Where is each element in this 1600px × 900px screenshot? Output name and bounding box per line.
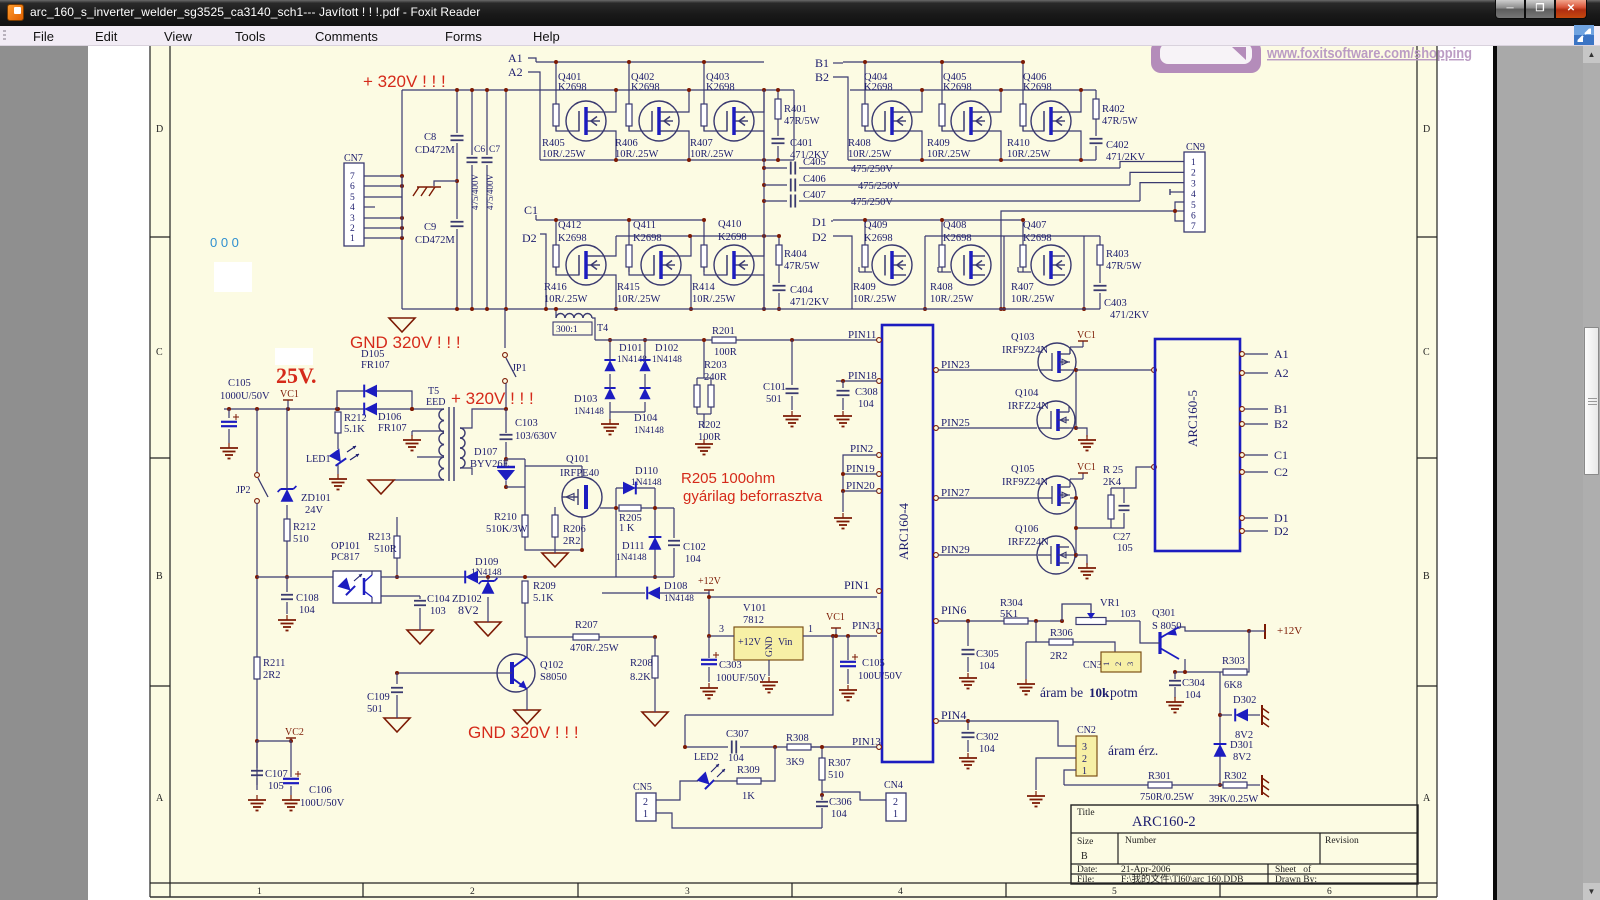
svg-text:+12V: +12V <box>738 637 762 648</box>
svg-text:8.2K: 8.2K <box>630 672 651 683</box>
svg-text:JP1: JP1 <box>512 363 526 374</box>
svg-text:B: B <box>1081 851 1088 862</box>
svg-text:104: 104 <box>858 399 875 410</box>
svg-text:10R/.25W: 10R/.25W <box>1007 149 1051 160</box>
svg-text:Q407: Q407 <box>1023 220 1046 231</box>
svg-text:3: 3 <box>719 624 724 635</box>
svg-text:D107: D107 <box>474 447 497 458</box>
svg-text:C1: C1 <box>524 203 538 217</box>
svg-text:510R: 510R <box>374 544 397 555</box>
svg-text:D: D <box>1423 124 1430 135</box>
svg-text:R209: R209 <box>533 581 556 592</box>
svg-text:C101: C101 <box>763 382 786 393</box>
svg-text:1N4148: 1N4148 <box>634 426 664 436</box>
svg-text:3: 3 <box>350 214 355 224</box>
svg-text:10R/.25W: 10R/.25W <box>848 149 892 160</box>
svg-text:C104: C104 <box>427 594 451 605</box>
svg-text:C7: C7 <box>489 145 500 155</box>
svg-text:R416: R416 <box>544 282 567 293</box>
svg-text:R211: R211 <box>263 658 285 669</box>
svg-text:475/250V: 475/250V <box>851 164 893 175</box>
svg-text:3: 3 <box>1082 742 1087 753</box>
svg-text:VC1: VC1 <box>1077 330 1096 341</box>
svg-text:R408: R408 <box>848 138 871 149</box>
svg-text:104: 104 <box>831 809 848 820</box>
svg-text:C307: C307 <box>726 729 749 740</box>
svg-text:475/250V: 475/250V <box>851 197 893 208</box>
svg-text:Q301: Q301 <box>1152 608 1175 619</box>
svg-text:2: 2 <box>470 887 475 897</box>
svg-text:4: 4 <box>350 203 355 213</box>
svg-text:C8: C8 <box>424 132 436 143</box>
svg-text:1: 1 <box>1101 662 1111 666</box>
svg-text:Q105: Q105 <box>1011 464 1034 475</box>
svg-text:2R2: 2R2 <box>563 536 581 547</box>
svg-text:FR107: FR107 <box>361 360 390 371</box>
svg-text:K2698: K2698 <box>633 233 662 244</box>
svg-text:LED2: LED2 <box>694 752 718 763</box>
svg-text:PIN6: PIN6 <box>941 603 966 617</box>
svg-text:OP101: OP101 <box>331 541 360 552</box>
svg-text:A2: A2 <box>1274 366 1289 380</box>
svg-text:R207: R207 <box>575 620 598 631</box>
svg-text:K2698: K2698 <box>864 82 893 93</box>
svg-text:7812: 7812 <box>743 615 764 626</box>
svg-text:C402: C402 <box>1106 140 1129 151</box>
svg-text:K2698: K2698 <box>1023 82 1052 93</box>
svg-text:CD472M: CD472M <box>415 145 455 156</box>
svg-text:2: 2 <box>1082 754 1087 765</box>
svg-text:2: 2 <box>643 797 648 808</box>
svg-text:ZD101: ZD101 <box>301 493 331 504</box>
svg-text:+12V: +12V <box>1277 625 1302 637</box>
svg-text:R303: R303 <box>1222 656 1245 667</box>
svg-text:1N4148: 1N4148 <box>652 355 682 365</box>
svg-text:1: 1 <box>257 887 262 897</box>
svg-text:D109: D109 <box>475 557 498 568</box>
svg-text:K2698: K2698 <box>1023 233 1052 244</box>
svg-text:475/400V: 475/400V <box>485 173 495 210</box>
svg-text:R301: R301 <box>1148 771 1171 782</box>
svg-text:D103: D103 <box>574 394 597 405</box>
svg-text:8V2: 8V2 <box>458 603 479 617</box>
svg-text:2R2: 2R2 <box>1050 651 1068 662</box>
svg-text:R409: R409 <box>853 282 876 293</box>
svg-text:1: 1 <box>893 809 898 820</box>
svg-text:Q101: Q101 <box>566 454 589 465</box>
svg-text:25V.: 25V. <box>276 363 317 388</box>
svg-text:+ 320V ! ! !: + 320V ! ! ! <box>451 389 534 408</box>
svg-text:PIN4: PIN4 <box>941 708 966 722</box>
svg-text:K2698: K2698 <box>558 82 587 93</box>
svg-text:3: 3 <box>1191 179 1196 189</box>
svg-text:471/2KV: 471/2KV <box>790 297 830 308</box>
svg-text:R309: R309 <box>737 765 760 776</box>
svg-text:LED1: LED1 <box>306 454 330 465</box>
svg-text:7: 7 <box>1191 222 1196 232</box>
svg-text:1N4148: 1N4148 <box>574 407 604 417</box>
svg-text:PIN2: PIN2 <box>850 443 873 455</box>
svg-text:PC817: PC817 <box>331 552 360 563</box>
svg-text:10R/.25W: 10R/.25W <box>690 149 734 160</box>
svg-text:4: 4 <box>1191 190 1196 200</box>
svg-text:47R/5W: 47R/5W <box>1102 116 1138 127</box>
svg-text:CN5: CN5 <box>633 782 652 793</box>
svg-text:47R/5W: 47R/5W <box>784 261 820 272</box>
svg-text:R308: R308 <box>786 733 809 744</box>
svg-text:475/250V: 475/250V <box>858 181 900 192</box>
svg-text:CN4: CN4 <box>884 780 903 791</box>
svg-text:K2698: K2698 <box>631 82 660 93</box>
svg-text:C2: C2 <box>1274 465 1288 479</box>
svg-text:Date:: Date: <box>1077 865 1098 875</box>
svg-text:C1: C1 <box>1274 448 1288 462</box>
svg-text:R304: R304 <box>1000 598 1024 609</box>
svg-text:103: 103 <box>430 606 446 617</box>
svg-text:CN7: CN7 <box>344 153 363 164</box>
svg-text:R410: R410 <box>1007 138 1030 149</box>
svg-text:C306: C306 <box>829 797 852 808</box>
svg-text:GND 320V ! ! !: GND 320V ! ! ! <box>468 723 579 742</box>
svg-text:300:1: 300:1 <box>556 325 578 335</box>
svg-text:IRF9Z24N: IRF9Z24N <box>1002 345 1049 356</box>
svg-text:8V2: 8V2 <box>1233 752 1251 763</box>
svg-text:D2: D2 <box>1274 524 1289 538</box>
svg-text:K2698: K2698 <box>864 233 893 244</box>
svg-text:T5: T5 <box>428 386 439 397</box>
svg-text:2R2: 2R2 <box>263 670 281 681</box>
svg-text:VR1: VR1 <box>1100 598 1120 609</box>
svg-text:R415: R415 <box>617 282 640 293</box>
svg-text:D302: D302 <box>1233 695 1256 706</box>
svg-text:1K: 1K <box>742 791 755 802</box>
svg-text:R201: R201 <box>712 326 735 337</box>
svg-text:K2698: K2698 <box>718 232 747 243</box>
svg-text:B: B <box>1423 571 1430 582</box>
svg-text:R408: R408 <box>930 282 953 293</box>
svg-text:5: 5 <box>1112 887 1117 897</box>
svg-text:2: 2 <box>1191 169 1196 179</box>
svg-text:3: 3 <box>1125 662 1135 666</box>
svg-text:10R/.25W: 10R/.25W <box>542 149 586 160</box>
svg-text:501: 501 <box>766 394 782 405</box>
svg-text:Q106: Q106 <box>1015 524 1038 535</box>
svg-text:47R/5W: 47R/5W <box>1106 261 1142 272</box>
svg-text:R407: R407 <box>1011 282 1034 293</box>
svg-text:10R/.25W: 10R/.25W <box>927 149 971 160</box>
svg-text:R210: R210 <box>494 512 517 523</box>
svg-text:C109: C109 <box>367 692 390 703</box>
svg-text:R402: R402 <box>1102 104 1125 115</box>
svg-text:104: 104 <box>979 744 996 755</box>
svg-text:7: 7 <box>350 172 355 182</box>
svg-text:R208: R208 <box>630 658 653 669</box>
svg-text:JP2: JP2 <box>236 485 250 496</box>
svg-text:PIN29: PIN29 <box>941 544 970 556</box>
svg-text:Q411: Q411 <box>633 220 656 231</box>
svg-text:K2698: K2698 <box>943 233 972 244</box>
svg-text:1: 1 <box>350 234 355 244</box>
svg-text:A: A <box>1423 793 1431 804</box>
svg-text:PIN31: PIN31 <box>852 620 881 632</box>
svg-text:39K/0.25W: 39K/0.25W <box>1209 794 1258 805</box>
svg-text:Number: Number <box>1125 836 1157 846</box>
svg-text:CD472M: CD472M <box>415 235 455 246</box>
svg-text:PIN23: PIN23 <box>941 359 970 371</box>
svg-text:C108: C108 <box>296 593 319 604</box>
svg-text:10k: 10k <box>1089 685 1110 700</box>
svg-text:PIN11: PIN11 <box>848 329 876 341</box>
svg-text:5: 5 <box>350 193 355 203</box>
svg-text:C6: C6 <box>474 145 485 155</box>
svg-text:áram be: áram be <box>1040 685 1083 700</box>
svg-text:10R/.25W: 10R/.25W <box>1011 294 1055 305</box>
svg-text:IRF9Z24N: IRF9Z24N <box>1002 477 1049 488</box>
svg-text:105: 105 <box>268 781 284 792</box>
svg-text:R205 100ohm: R205 100ohm <box>681 470 775 487</box>
svg-text:2: 2 <box>350 224 355 234</box>
svg-text:PIN1: PIN1 <box>844 578 869 592</box>
svg-text:C105: C105 <box>862 658 885 669</box>
svg-text:R302: R302 <box>1224 771 1247 782</box>
svg-text:10R/.25W: 10R/.25W <box>544 294 588 305</box>
svg-text:www.foxitsoftware.com/shopping: www.foxitsoftware.com/shopping <box>1266 46 1472 62</box>
svg-text:D1: D1 <box>1274 511 1289 525</box>
svg-text:A: A <box>156 793 164 804</box>
svg-text:10R/.25W: 10R/.25W <box>930 294 974 305</box>
svg-text:A2: A2 <box>508 65 523 79</box>
svg-text:750R/0.25W: 750R/0.25W <box>1140 792 1194 803</box>
svg-text:B2: B2 <box>815 70 829 84</box>
svg-text:S8050: S8050 <box>540 672 567 683</box>
svg-text:105: 105 <box>1117 543 1133 554</box>
svg-text:3K9: 3K9 <box>786 757 804 768</box>
svg-text:V101: V101 <box>743 603 766 614</box>
svg-text:CN3: CN3 <box>1083 660 1102 671</box>
svg-text:D102: D102 <box>655 343 678 354</box>
svg-text:5.1K: 5.1K <box>533 593 554 604</box>
svg-text:C102: C102 <box>683 542 706 553</box>
svg-text:C: C <box>1423 347 1430 358</box>
svg-text:100R: 100R <box>698 432 721 443</box>
svg-text:100U/50V: 100U/50V <box>300 798 345 809</box>
svg-text:6: 6 <box>1191 212 1196 222</box>
svg-text:A1: A1 <box>508 51 523 65</box>
svg-text:24V: 24V <box>305 505 324 516</box>
svg-text:PIN13: PIN13 <box>852 736 881 748</box>
svg-text:103/630V: 103/630V <box>515 431 557 442</box>
svg-text:áram érz.: áram érz. <box>1108 743 1158 758</box>
svg-text:B1: B1 <box>1274 402 1288 416</box>
svg-text:Revision: Revision <box>1325 836 1359 846</box>
svg-text:B1: B1 <box>815 56 829 70</box>
svg-text:4: 4 <box>898 887 903 897</box>
svg-text:Q102: Q102 <box>540 660 563 671</box>
svg-text:1: 1 <box>808 624 813 635</box>
svg-text:2K4: 2K4 <box>1103 477 1122 488</box>
svg-text:D105: D105 <box>361 349 384 360</box>
svg-text:C9: C9 <box>424 222 436 233</box>
svg-text:1 K: 1 K <box>619 523 635 534</box>
svg-text:501: 501 <box>367 704 383 715</box>
svg-text:Q409: Q409 <box>864 220 887 231</box>
svg-text:ARC160-2: ARC160-2 <box>1132 814 1196 830</box>
svg-text:CN9: CN9 <box>1186 142 1205 153</box>
svg-text:C404: C404 <box>790 285 814 296</box>
svg-text:C403: C403 <box>1104 298 1127 309</box>
svg-text:R404: R404 <box>784 249 808 260</box>
svg-text:R203: R203 <box>704 360 727 371</box>
svg-text:D108: D108 <box>664 581 687 592</box>
svg-text:D106: D106 <box>378 412 401 423</box>
svg-text:104: 104 <box>979 661 996 672</box>
svg-text:510K/3W: 510K/3W <box>486 524 528 535</box>
svg-text:VC2: VC2 <box>285 727 304 738</box>
svg-text:R212: R212 <box>293 522 316 533</box>
svg-text:BYV26E: BYV26E <box>470 459 509 470</box>
svg-text:A1: A1 <box>1274 347 1289 361</box>
svg-text:475/400V: 475/400V <box>470 173 480 210</box>
svg-text:Q412: Q412 <box>558 220 581 231</box>
svg-text:R202: R202 <box>698 420 721 431</box>
svg-text:104: 104 <box>728 753 745 764</box>
svg-text:510: 510 <box>828 770 844 781</box>
svg-text:Vin: Vin <box>778 637 792 648</box>
svg-text:B2: B2 <box>1274 417 1288 431</box>
svg-text:+12V: +12V <box>698 576 722 587</box>
svg-text:Size: Size <box>1077 837 1093 847</box>
svg-text:IRFPE40: IRFPE40 <box>560 468 599 479</box>
svg-text:0 0 0: 0 0 0 <box>210 235 239 250</box>
svg-text:2: 2 <box>893 797 898 808</box>
svg-text:104: 104 <box>299 605 316 616</box>
svg-text:6: 6 <box>1327 887 1332 897</box>
svg-text:10R/.25W: 10R/.25W <box>853 294 897 305</box>
svg-text:C105: C105 <box>228 378 251 389</box>
svg-text:Q104: Q104 <box>1015 388 1039 399</box>
svg-text:R405: R405 <box>542 138 565 149</box>
svg-text:B: B <box>156 571 163 582</box>
svg-text:ARC160-5: ARC160-5 <box>1185 390 1200 447</box>
svg-text:FR107: FR107 <box>378 423 407 434</box>
svg-text:2: 2 <box>1113 662 1123 666</box>
svg-text:C106: C106 <box>309 785 332 796</box>
svg-text:10R/.25W: 10R/.25W <box>617 294 661 305</box>
svg-text:R306: R306 <box>1050 628 1073 639</box>
svg-text:100UF/50V: 100UF/50V <box>716 673 767 684</box>
svg-text:K2698: K2698 <box>558 233 587 244</box>
svg-text:T4: T4 <box>597 323 608 334</box>
svg-text:1: 1 <box>1191 158 1196 168</box>
svg-text:VC1: VC1 <box>826 612 845 623</box>
svg-text:D110: D110 <box>635 466 658 477</box>
svg-text:D111: D111 <box>622 541 645 552</box>
svg-text:470R/.25W: 470R/.25W <box>570 643 619 654</box>
svg-text:C304: C304 <box>1182 678 1206 689</box>
svg-text:gyárilag beforrasztva: gyárilag beforrasztva <box>683 488 823 505</box>
svg-text:Sheet of: Sheet of <box>1275 864 1312 875</box>
svg-text:10R/.25W: 10R/.25W <box>692 294 736 305</box>
svg-text:R307: R307 <box>828 758 851 769</box>
svg-text:K2698: K2698 <box>706 82 735 93</box>
svg-text:VC1: VC1 <box>1077 462 1096 473</box>
svg-text:R 25: R 25 <box>1103 465 1123 476</box>
svg-text:Q408: Q408 <box>943 220 966 231</box>
svg-text:C406: C406 <box>803 174 826 185</box>
svg-text:PIN18: PIN18 <box>848 370 877 382</box>
svg-text:C303: C303 <box>719 660 742 671</box>
svg-text:510: 510 <box>293 534 309 545</box>
svg-text:D104: D104 <box>634 413 658 424</box>
svg-text:potm: potm <box>1110 685 1138 700</box>
svg-text:CN2: CN2 <box>1077 725 1096 736</box>
svg-text:S 8050: S 8050 <box>1152 621 1181 632</box>
svg-text:1: 1 <box>643 809 648 820</box>
svg-text:104: 104 <box>1185 690 1202 701</box>
svg-text:5: 5 <box>1191 201 1196 211</box>
svg-text:D1: D1 <box>812 215 827 229</box>
svg-text:104: 104 <box>685 554 702 565</box>
svg-text:100R: 100R <box>714 347 737 358</box>
svg-text:D: D <box>156 124 163 135</box>
svg-text:D2: D2 <box>812 230 827 244</box>
svg-text:VC1: VC1 <box>280 389 299 400</box>
svg-text:C305: C305 <box>976 649 999 660</box>
svg-text:D301: D301 <box>1230 740 1253 751</box>
svg-text:GND: GND <box>765 636 775 657</box>
svg-text:C405: C405 <box>803 157 826 168</box>
svg-text:6: 6 <box>350 182 355 192</box>
svg-text:C103: C103 <box>515 418 538 429</box>
svg-text:21-Apr-2006: 21-Apr-2006 <box>1121 865 1171 875</box>
svg-text:1: 1 <box>1082 766 1087 777</box>
svg-text:100U/50V: 100U/50V <box>858 671 903 682</box>
svg-text:K2698: K2698 <box>943 82 972 93</box>
svg-text:Title: Title <box>1077 808 1095 818</box>
svg-text:471/2KV: 471/2KV <box>1110 310 1150 321</box>
svg-text:Q103: Q103 <box>1011 332 1034 343</box>
svg-text:R406: R406 <box>615 138 638 149</box>
svg-text:5.1K: 5.1K <box>344 424 365 435</box>
svg-text:+ 320V ! ! !: + 320V ! ! ! <box>363 72 446 91</box>
svg-text:C: C <box>156 347 163 358</box>
svg-text:C27: C27 <box>1113 532 1131 543</box>
svg-text:R407: R407 <box>690 138 713 149</box>
svg-text:PIN19: PIN19 <box>846 463 875 475</box>
svg-text:R409: R409 <box>927 138 950 149</box>
svg-text:R213: R213 <box>368 532 391 543</box>
svg-text:D2: D2 <box>522 231 537 245</box>
svg-text:C407: C407 <box>803 190 826 201</box>
svg-text:103: 103 <box>1120 609 1136 620</box>
svg-text:D101: D101 <box>619 343 642 354</box>
svg-text:3: 3 <box>685 887 690 897</box>
svg-text:1N4148: 1N4148 <box>616 553 647 563</box>
svg-text:Q410: Q410 <box>718 219 741 230</box>
svg-text:ARC160-4: ARC160-4 <box>896 502 911 560</box>
svg-text:PIN27: PIN27 <box>941 487 970 499</box>
svg-text:IRFZ24N: IRFZ24N <box>1008 537 1049 548</box>
svg-text:PIN25: PIN25 <box>941 417 970 429</box>
svg-text:C308: C308 <box>855 387 878 398</box>
svg-text:PIN20: PIN20 <box>846 480 875 492</box>
svg-text:C302: C302 <box>976 732 999 743</box>
svg-text:R401: R401 <box>784 104 807 115</box>
svg-text:1000U/50V: 1000U/50V <box>220 391 270 402</box>
svg-text:1N4148: 1N4148 <box>664 594 694 604</box>
svg-text:6K8: 6K8 <box>1224 680 1242 691</box>
svg-text:IRFZ24N: IRFZ24N <box>1008 401 1049 412</box>
